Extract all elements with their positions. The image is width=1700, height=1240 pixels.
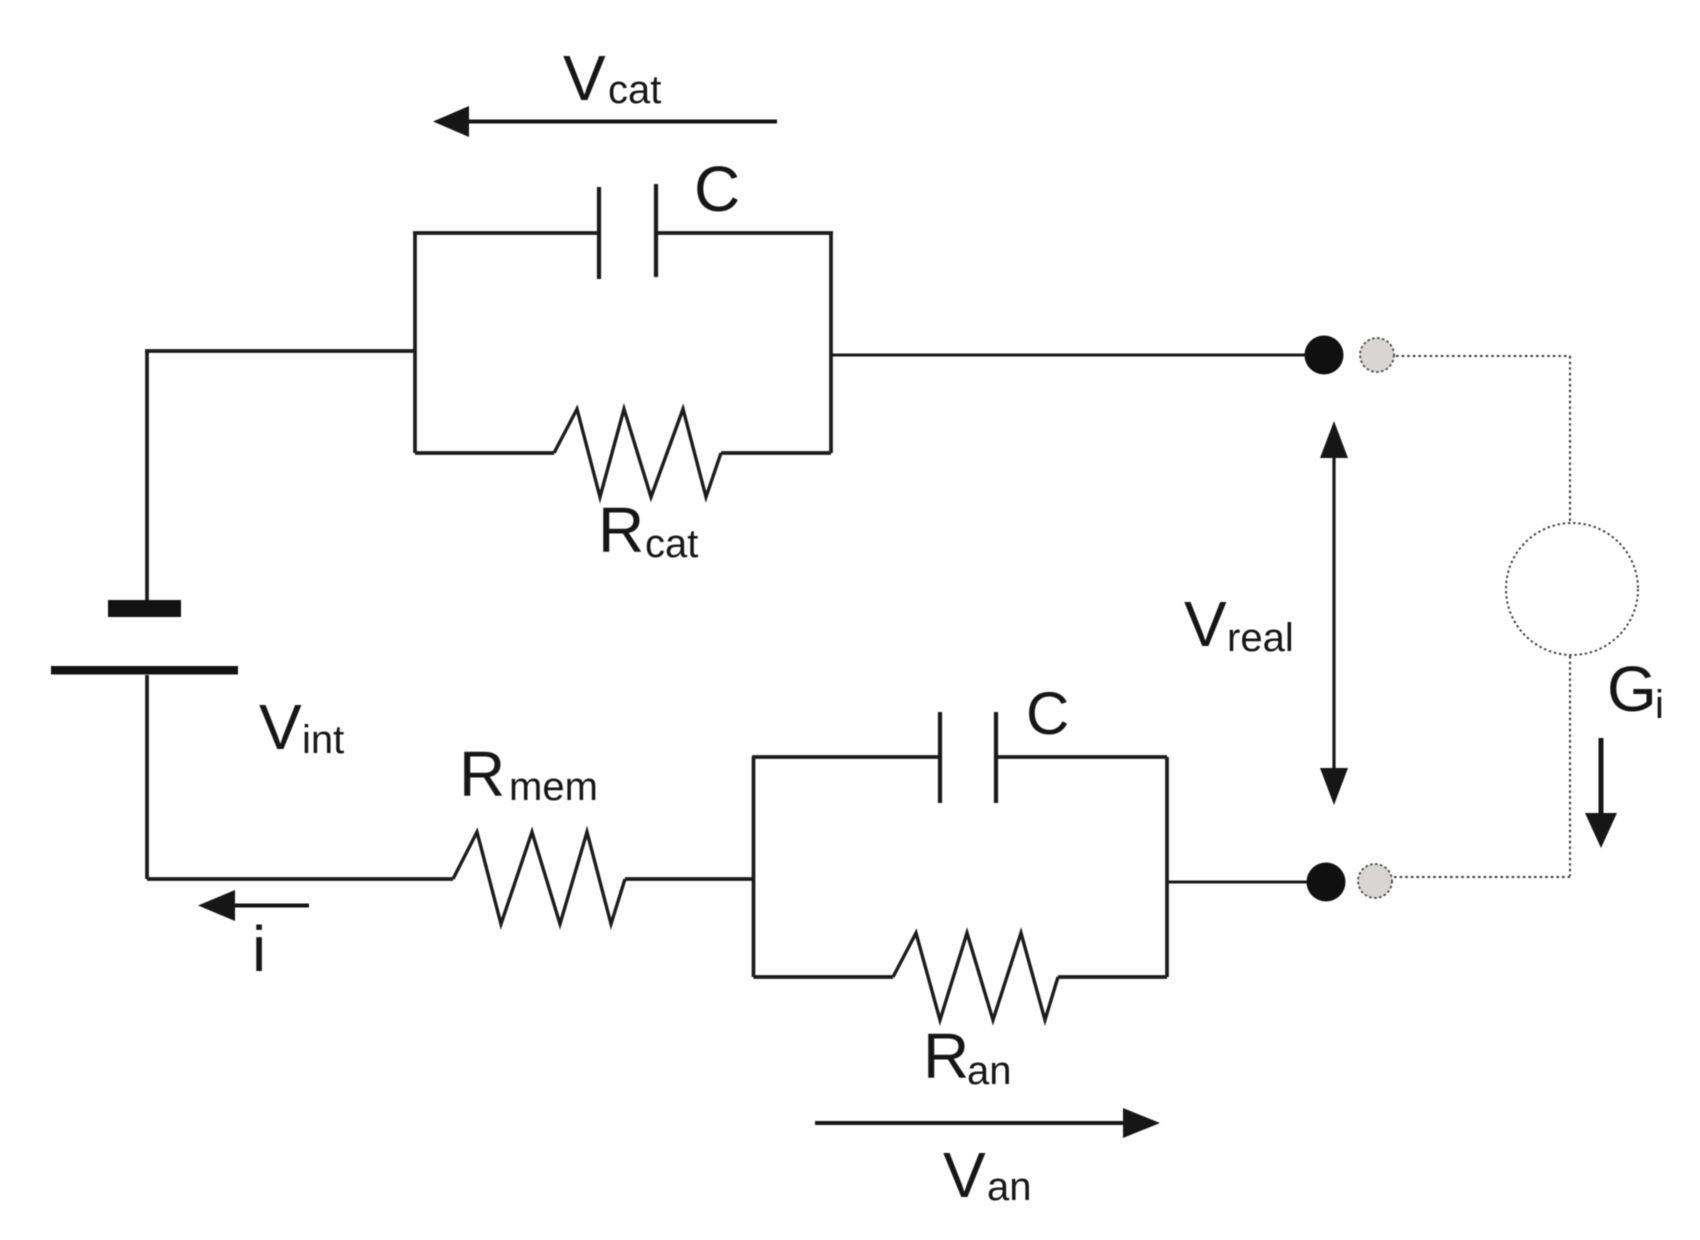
svg-text:R: R <box>598 494 644 566</box>
svg-text:i: i <box>1655 683 1664 727</box>
svg-text:int: int <box>302 718 344 762</box>
svg-text:real: real <box>1227 616 1294 660</box>
svg-text:R: R <box>459 738 505 810</box>
svg-text:V: V <box>943 1139 986 1211</box>
svg-text:G: G <box>1607 653 1657 725</box>
svg-text:R: R <box>923 1020 969 1092</box>
svg-text:C: C <box>1026 680 1069 747</box>
svg-text:an: an <box>987 1165 1032 1209</box>
svg-text:an: an <box>967 1049 1012 1093</box>
svg-text:V: V <box>563 42 606 114</box>
svg-text:C: C <box>694 153 740 225</box>
svg-text:mem: mem <box>509 765 598 809</box>
svg-text:cat: cat <box>645 522 698 566</box>
svg-text:cat: cat <box>608 68 661 112</box>
svg-text:V: V <box>259 691 302 763</box>
svg-text:V: V <box>1184 588 1227 660</box>
svg-text:i: i <box>252 913 266 985</box>
